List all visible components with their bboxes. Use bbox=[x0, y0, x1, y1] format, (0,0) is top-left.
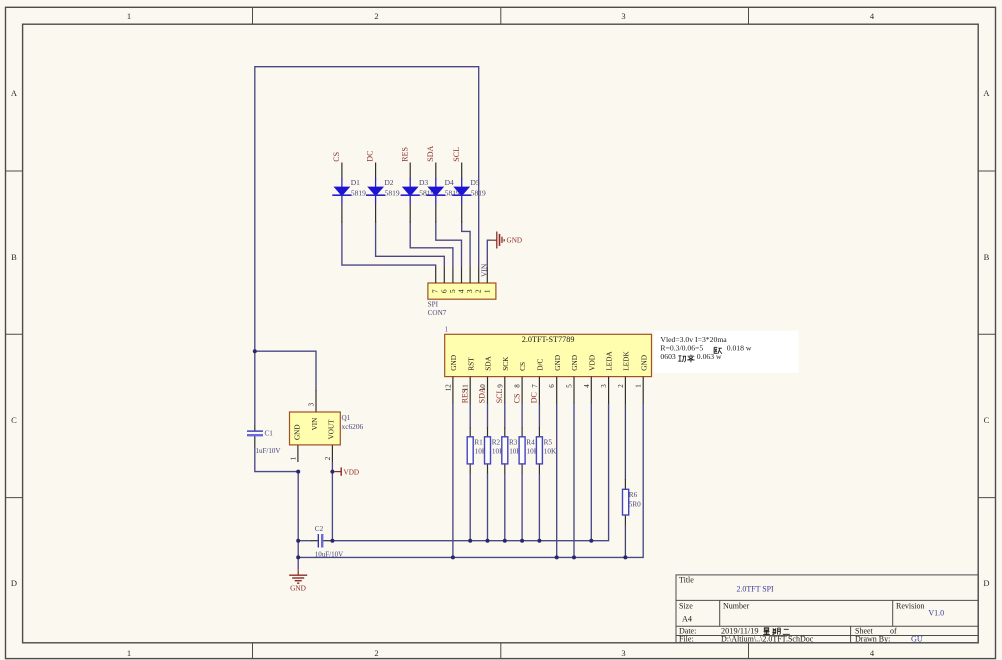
svg-text:SCK: SCK bbox=[501, 356, 510, 371]
svg-text:DC: DC bbox=[530, 392, 539, 403]
power port GND bottom earth bbox=[289, 569, 307, 592]
pin 7 bbox=[435, 267, 437, 283]
svg-text:CS: CS bbox=[332, 152, 341, 162]
svg-text:2: 2 bbox=[324, 456, 332, 460]
svg-text:GND: GND bbox=[639, 355, 648, 371]
svg-text:5819: 5819 bbox=[351, 189, 366, 198]
svg-text:8: 8 bbox=[514, 384, 522, 388]
svg-text:C: C bbox=[984, 415, 990, 425]
node R5 bottom bbox=[537, 539, 541, 543]
pin 6 bbox=[443, 267, 445, 283]
svg-text:1: 1 bbox=[127, 11, 131, 21]
svg-text:SCL: SCL bbox=[452, 147, 461, 162]
node pin6 on GND row bbox=[555, 555, 559, 559]
node R2 bottom bbox=[486, 539, 490, 543]
svg-text:GND: GND bbox=[290, 584, 306, 593]
wire IC pin9 through R3 bbox=[504, 403, 506, 427]
power port VDD bbox=[335, 467, 360, 476]
svg-text:3: 3 bbox=[621, 648, 625, 658]
svg-text:GND: GND bbox=[570, 355, 579, 371]
svg-text:5819: 5819 bbox=[471, 189, 486, 198]
svg-text:7: 7 bbox=[531, 384, 539, 388]
IC pin 1 GND bbox=[635, 355, 649, 404]
svg-text:of: of bbox=[890, 626, 897, 635]
svg-text:B: B bbox=[984, 252, 990, 262]
diode D3 bbox=[401, 163, 435, 223]
svg-text:1uF/10V: 1uF/10V bbox=[256, 447, 281, 455]
svg-text:3: 3 bbox=[621, 11, 625, 21]
svg-text:Size: Size bbox=[679, 602, 693, 611]
svg-text:10uF/10V: 10uF/10V bbox=[315, 551, 343, 559]
node junction on VIN branch bbox=[253, 349, 257, 353]
node VOUT on VDD row bbox=[330, 539, 334, 543]
svg-text:0.018 w: 0.018 w bbox=[727, 343, 752, 352]
svg-text:3: 3 bbox=[307, 402, 315, 406]
svg-text:1: 1 bbox=[127, 648, 131, 658]
svg-text:GND: GND bbox=[293, 424, 301, 440]
node R3 bottom bbox=[503, 539, 507, 543]
svg-text:1: 1 bbox=[289, 456, 297, 460]
svg-text:Title: Title bbox=[679, 576, 694, 585]
svg-text:File:: File: bbox=[679, 635, 694, 644]
svg-text:12: 12 bbox=[444, 384, 452, 392]
CJK glyph qi bbox=[772, 628, 780, 635]
wire diode D5 to connector pin3 bbox=[462, 222, 470, 267]
svg-text:GND: GND bbox=[449, 355, 458, 371]
ruler labels right bbox=[983, 88, 990, 588]
svg-text:4: 4 bbox=[583, 384, 591, 388]
svg-text:xc6206: xc6206 bbox=[342, 422, 364, 431]
svg-text:VIN: VIN bbox=[479, 263, 488, 277]
svg-text:3: 3 bbox=[600, 384, 608, 388]
svg-text:A4: A4 bbox=[682, 615, 692, 624]
svg-text:5R0: 5R0 bbox=[629, 501, 641, 509]
svg-text:2.0TFT SPI: 2.0TFT SPI bbox=[737, 585, 774, 594]
pin 2 VOUT bottom bbox=[331, 445, 333, 462]
svg-text:GND: GND bbox=[507, 237, 523, 245]
svg-text:D3: D3 bbox=[419, 178, 428, 187]
capacitor C1 pin top bbox=[254, 425, 256, 431]
svg-text:R5: R5 bbox=[544, 439, 553, 447]
ruler labels left bbox=[11, 88, 18, 588]
ruler column dividers bottom bbox=[253, 643, 749, 659]
wire diode D2 to connector pin6 bbox=[376, 222, 445, 267]
resistor R4 bbox=[519, 437, 540, 464]
node GND junction bbox=[296, 470, 300, 474]
svg-text:B: B bbox=[11, 252, 17, 262]
wire diode D1 to connector pin7 bbox=[342, 222, 436, 267]
IC pin 3 LEDA bbox=[600, 351, 614, 404]
svg-text:GND: GND bbox=[553, 355, 562, 371]
wire IC pin4 to VDD row bbox=[590, 403, 592, 540]
pin 4 bbox=[461, 267, 463, 283]
wire VDD row bbox=[323, 540, 330, 542]
svg-text:1: 1 bbox=[482, 289, 491, 293]
svg-text:9: 9 bbox=[496, 384, 504, 388]
svg-text:CON7: CON7 bbox=[428, 309, 447, 317]
capacitor C2 bbox=[315, 525, 343, 559]
wire IC pin11 through R1 bbox=[469, 403, 471, 427]
svg-text:Number: Number bbox=[723, 602, 750, 611]
svg-text:R6: R6 bbox=[629, 491, 638, 499]
power port GND top bbox=[492, 232, 522, 249]
capacitor C2 pin left bbox=[311, 540, 318, 542]
svg-text:R2: R2 bbox=[492, 439, 501, 447]
svg-text:SDA: SDA bbox=[484, 355, 493, 370]
IC pin 4 VDD bbox=[583, 355, 597, 404]
svg-text:D4: D4 bbox=[445, 178, 454, 187]
capacitor C1 bbox=[247, 430, 280, 455]
wire GND row bbox=[298, 403, 643, 557]
svg-text:C: C bbox=[11, 415, 17, 425]
svg-text:0603: 0603 bbox=[660, 352, 676, 361]
wire IC pin7 through R5 bbox=[538, 403, 540, 427]
svg-text:2.0TFT-ST7789: 2.0TFT-ST7789 bbox=[522, 335, 575, 344]
connector SPI CON7 bbox=[428, 263, 496, 317]
svg-text:1: 1 bbox=[635, 384, 643, 388]
node pin12 on GND row bbox=[451, 555, 455, 559]
wire VIN branch to regulator pin3 bbox=[255, 351, 316, 390]
svg-text:C2: C2 bbox=[315, 525, 324, 533]
svg-text:V1.0: V1.0 bbox=[928, 609, 944, 618]
svg-text:LEDK: LEDK bbox=[622, 351, 631, 371]
pin 3 bbox=[469, 267, 471, 283]
svg-text:0.063 w: 0.063 w bbox=[697, 352, 722, 361]
pin 1 GND bottom bbox=[297, 445, 299, 462]
resistor R6 bbox=[623, 489, 642, 515]
diode D2 bbox=[366, 163, 400, 223]
wire R6 bottom to GND row bbox=[624, 515, 626, 525]
wire C2 left branch bbox=[298, 540, 311, 542]
svg-text:Drawn By:: Drawn By: bbox=[855, 635, 890, 644]
CJK glyph lv bbox=[687, 355, 694, 363]
pin 3 VIN top bbox=[315, 390, 317, 412]
svg-text:Revision: Revision bbox=[896, 602, 924, 611]
ruler labels bottom bbox=[127, 648, 875, 658]
node GND row left junction bbox=[296, 555, 300, 559]
node R1 bottom bbox=[468, 539, 472, 543]
wire IC pin6 to GND row bbox=[556, 403, 558, 557]
svg-text:SCL: SCL bbox=[495, 389, 504, 404]
IC pin 10 SDA bbox=[479, 355, 493, 403]
svg-text:D/C: D/C bbox=[536, 359, 545, 371]
svg-text:10K: 10K bbox=[544, 447, 557, 455]
wire IC pin10 through R2 bbox=[487, 403, 489, 427]
wire GND trunk vertical bbox=[297, 472, 299, 570]
svg-text:5819: 5819 bbox=[385, 189, 400, 198]
svg-text:A: A bbox=[11, 88, 18, 98]
IC pin 7 D/C bbox=[531, 359, 545, 404]
svg-text:6: 6 bbox=[548, 384, 556, 388]
wire connector pin1 to GND port bbox=[487, 240, 492, 267]
wire diode D4 to connector pin4 bbox=[436, 222, 462, 267]
resistor R3 bbox=[502, 437, 523, 464]
wire C1 bottom to GND node bbox=[254, 436, 256, 448]
ruler row dividers left bbox=[6, 171, 23, 498]
svg-text:SPI: SPI bbox=[428, 300, 439, 308]
svg-text:D: D bbox=[983, 578, 989, 588]
resistor R2 bbox=[485, 437, 506, 464]
CJK glyph er bbox=[783, 629, 790, 634]
svg-text:DC: DC bbox=[366, 151, 375, 162]
diode D1 bbox=[332, 163, 366, 223]
svg-text:Q1: Q1 bbox=[342, 414, 351, 422]
svg-text:2: 2 bbox=[374, 11, 378, 21]
IC pin 5 GND bbox=[566, 355, 580, 404]
svg-text:RES: RES bbox=[460, 389, 469, 404]
svg-text:D1: D1 bbox=[351, 178, 360, 187]
svg-text:D:\Altium\..\2.0TFT.SchDoc: D:\Altium\..\2.0TFT.SchDoc bbox=[721, 635, 814, 644]
CJK glyph gong bbox=[678, 356, 686, 362]
svg-text:2: 2 bbox=[374, 648, 378, 658]
ruler row dividers right bbox=[978, 171, 995, 498]
svg-text:1: 1 bbox=[445, 325, 449, 334]
resistor R5 bbox=[536, 437, 557, 464]
CJK glyph ou bbox=[714, 347, 722, 354]
ruler labels top bbox=[127, 11, 875, 21]
svg-text:A: A bbox=[983, 88, 990, 98]
svg-text:GU: GU bbox=[911, 635, 923, 644]
node R6 bottom on GND row bbox=[623, 555, 627, 559]
pin 2 bbox=[478, 267, 480, 283]
svg-text:RES: RES bbox=[400, 147, 409, 162]
svg-text:LEDA: LEDA bbox=[605, 351, 614, 371]
wire VOUT down to VDD row bbox=[331, 462, 333, 541]
title block bbox=[676, 575, 978, 643]
svg-text:5: 5 bbox=[566, 384, 574, 388]
IC pin 6 GND bbox=[548, 355, 562, 404]
diode D5 bbox=[452, 163, 486, 223]
wire IC pin2 to R6 top bbox=[624, 403, 626, 479]
text frame annotation bbox=[654, 331, 799, 373]
node R4 bottom bbox=[520, 539, 524, 543]
regulator Q1 xc6206 bbox=[289, 390, 363, 462]
svg-text:VDD: VDD bbox=[344, 469, 360, 477]
pin 5 bbox=[452, 267, 454, 283]
svg-text:CS: CS bbox=[518, 362, 527, 371]
IC pin 2 LEDK bbox=[617, 351, 631, 404]
svg-text:D5: D5 bbox=[471, 178, 480, 187]
svg-text:R3: R3 bbox=[509, 439, 518, 447]
wire IC pin5 to GND row bbox=[573, 403, 575, 557]
CJK glyph xing bbox=[763, 628, 770, 635]
wire diode D3 to connector pin5 bbox=[410, 222, 453, 267]
svg-text:2: 2 bbox=[617, 384, 625, 388]
svg-text:SDA: SDA bbox=[478, 387, 487, 403]
svg-text:VIN: VIN bbox=[311, 417, 319, 431]
svg-text:RST: RST bbox=[466, 357, 475, 371]
ruler column dividers top bbox=[253, 7, 749, 24]
svg-text:CS: CS bbox=[512, 394, 521, 404]
IC pin 8 CS bbox=[514, 362, 528, 404]
svg-text:D: D bbox=[11, 578, 17, 588]
IC U1 2.0TFT-ST7789 bbox=[445, 325, 652, 377]
pin 1 bbox=[486, 267, 488, 283]
IC pin 11 RST bbox=[462, 357, 476, 404]
IC pin 9 SCK bbox=[496, 356, 510, 404]
resistor R1 bbox=[467, 437, 488, 464]
wire big loop VIN from connector pin2 to regulator area bbox=[255, 67, 479, 425]
node pin4 on VDD row bbox=[589, 539, 593, 543]
diode D4 bbox=[426, 163, 460, 223]
IC pin 12 GND bbox=[444, 355, 458, 404]
svg-text:VOUT: VOUT bbox=[328, 419, 336, 440]
wire IC pin12 to GND row bbox=[452, 403, 454, 557]
node VDD junction bbox=[330, 470, 334, 474]
svg-text:SDA: SDA bbox=[426, 145, 435, 161]
node C2 left junction bbox=[296, 539, 300, 543]
node pin5 on GND row bbox=[572, 555, 576, 559]
svg-text:R1: R1 bbox=[474, 439, 483, 447]
wire IC pin8 through R4 bbox=[521, 403, 523, 427]
svg-text:D2: D2 bbox=[384, 178, 393, 187]
svg-text:VDD: VDD bbox=[587, 355, 596, 371]
svg-text:R4: R4 bbox=[526, 439, 535, 447]
svg-text:C1: C1 bbox=[265, 430, 274, 438]
